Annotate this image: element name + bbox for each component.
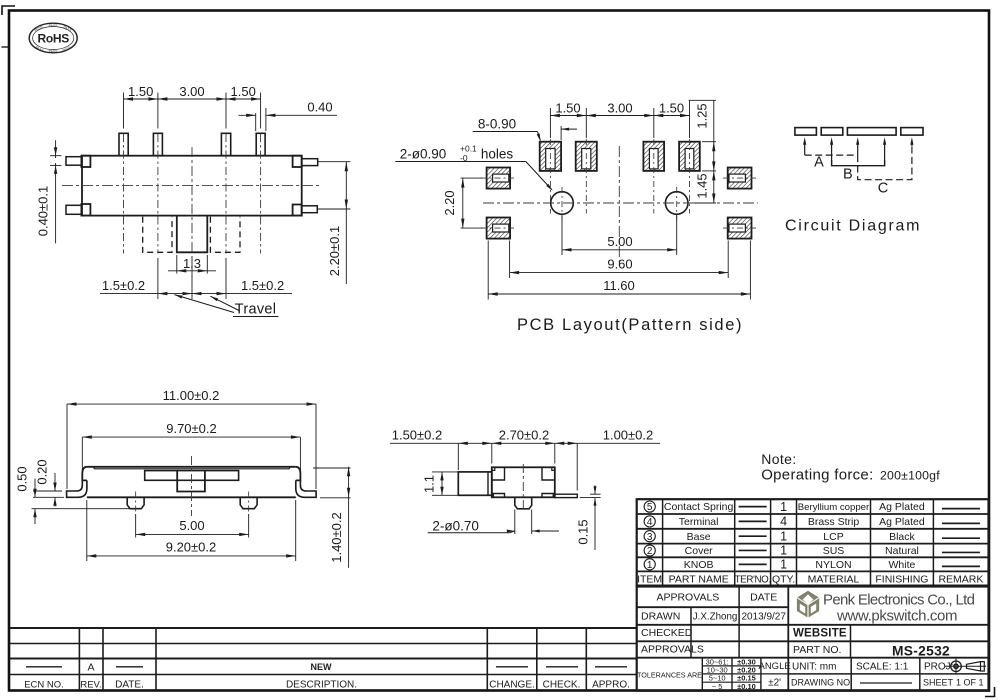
RoHS logo xyxy=(29,23,77,53)
dimension 1.40±0.2 (height) xyxy=(313,467,351,568)
end view knob (protruding left) xyxy=(458,472,492,495)
svg-text:WEBSITE: WEBSITE xyxy=(793,628,847,640)
svg-text:1: 1 xyxy=(647,560,653,571)
front view knob travel positions (dashed) xyxy=(143,217,172,253)
svg-text:PASS: PASS xyxy=(49,50,59,54)
PCB layout: side tab pads right (hatched) xyxy=(728,168,752,189)
svg-text:11.60: 11.60 xyxy=(603,278,635,293)
parts list header xyxy=(637,573,983,585)
svg-text:Ag Plated: Ag Plated xyxy=(879,516,925,528)
svg-text:NYLON: NYLON xyxy=(815,559,851,571)
svg-text:2013/9/27: 2013/9/27 xyxy=(741,612,786,623)
dimension 1.50 / 3.00 / 1.50 (pin pitch, front view) xyxy=(124,84,261,128)
dimension 1.00±0.2 (terminal length) xyxy=(555,428,660,491)
svg-text:MATERIAL: MATERIAL xyxy=(808,573,860,585)
svg-text:2: 2 xyxy=(647,546,653,557)
svg-text:4: 4 xyxy=(647,517,653,528)
svg-text:PART NO.: PART NO. xyxy=(793,644,841,656)
dimension 1.50±0.2 (knob protrusion) xyxy=(390,428,492,470)
svg-text:1: 1 xyxy=(780,558,787,572)
front view pin 1 xyxy=(119,133,128,155)
front view left mounting tabs xyxy=(66,157,81,166)
svg-text:B: B xyxy=(843,167,853,183)
tolerances block xyxy=(637,657,791,691)
svg-text:1: 1 xyxy=(780,500,787,514)
svg-text:DESCRIPTION.: DESCRIPTION. xyxy=(286,680,357,691)
svg-text:ANGLE: ANGLE xyxy=(758,661,790,672)
end view locating peg xyxy=(515,497,532,509)
svg-text:5: 5 xyxy=(647,502,653,513)
drawn row xyxy=(641,611,786,623)
side view centerlines xyxy=(191,456,193,516)
dimension 0.20 (terminal thickness) xyxy=(35,459,57,506)
svg-text:CHANGE.: CHANGE. xyxy=(489,680,535,691)
front view pin 3 xyxy=(221,133,230,155)
dimension 1.3 (knob width) xyxy=(168,255,216,274)
svg-text:~ 5: ~ 5 xyxy=(712,682,723,691)
company logo cube xyxy=(797,591,819,618)
svg-text:UNIT: mm: UNIT: mm xyxy=(792,662,836,673)
svg-text:REMARK: REMARK xyxy=(938,573,983,585)
svg-text:REV.: REV. xyxy=(80,680,101,691)
side view right locating peg xyxy=(240,497,257,508)
front view right mounting tabs xyxy=(293,156,302,167)
PCB layout centerlines xyxy=(481,139,759,263)
svg-text:APPROVALS: APPROVALS xyxy=(656,592,719,604)
front view switch body xyxy=(82,156,302,216)
svg-text:9.20±0.2: 9.20±0.2 xyxy=(166,540,217,555)
side view body base xyxy=(87,496,296,498)
svg-text:1.25: 1.25 xyxy=(695,103,710,128)
svg-text:0.50: 0.50 xyxy=(15,466,30,491)
svg-text:1.50: 1.50 xyxy=(555,100,580,115)
svg-text:Base: Base xyxy=(687,531,711,543)
circuit diagram common terminal xyxy=(847,128,896,136)
dimension 1.1 (knob height) xyxy=(422,472,462,495)
svg-text:www.pkswitch.com: www.pkswitch.com xyxy=(836,608,958,625)
side view knob xyxy=(177,471,205,492)
end view base steps xyxy=(493,494,553,498)
svg-text:1.45: 1.45 xyxy=(695,173,710,198)
svg-text:1: 1 xyxy=(780,544,787,558)
svg-text:DATE: DATE xyxy=(750,592,777,604)
svg-text:A: A xyxy=(814,155,824,171)
svg-text:C: C xyxy=(878,181,888,197)
dimension 9.20±0.2 xyxy=(87,500,296,561)
dimension 5.00 (peg pitch) xyxy=(136,514,249,538)
svg-text:1: 1 xyxy=(780,529,787,543)
svg-text:Operating force:: Operating force: xyxy=(761,467,873,484)
dimension 0.50 (peg protrusion) xyxy=(15,466,37,524)
svg-text:Penk Electronics Co., Ltd: Penk Electronics Co., Ltd xyxy=(823,592,975,609)
dimension 2.70±0.2 (body width) xyxy=(492,428,555,464)
svg-text:1.50±0.2: 1.50±0.2 xyxy=(392,428,443,443)
svg-text:SHEET: SHEET xyxy=(923,678,954,688)
svg-text:Brass Strip: Brass Strip xyxy=(808,516,860,528)
svg-text:1.40±0.2: 1.40±0.2 xyxy=(329,512,344,563)
contact arrows xyxy=(803,137,913,166)
reference lines for 0.50/0.20 xyxy=(32,491,131,509)
svg-text:CHECK.: CHECK. xyxy=(543,680,581,691)
parts list rows xyxy=(644,500,980,572)
svg-text:SUS: SUS xyxy=(823,545,845,557)
revision row entries xyxy=(26,662,627,674)
svg-text:±2': ±2' xyxy=(768,678,781,689)
svg-text:CHECKED: CHECKED xyxy=(641,627,693,639)
unit / scale / proj row xyxy=(788,658,988,691)
dimension 0.15 (terminal standoff) xyxy=(576,485,601,550)
svg-text:2.20: 2.20 xyxy=(442,190,457,215)
svg-text:TOLERANCES ARE: TOLERANCES ARE xyxy=(637,671,702,680)
svg-text:KNOB: KNOB xyxy=(684,559,714,571)
svg-text:3.00: 3.00 xyxy=(607,100,632,115)
svg-text:1 OF 1: 1 OF 1 xyxy=(956,678,984,688)
svg-text:Ag Plated: Ag Plated xyxy=(879,501,925,513)
Travel label with leaders xyxy=(174,295,278,318)
svg-text:TER'NO.: TER'NO. xyxy=(735,574,771,585)
front view knob xyxy=(177,216,208,253)
svg-text:Beryllium copper: Beryllium copper xyxy=(798,502,870,513)
svg-text:DATE.: DATE. xyxy=(115,680,144,691)
svg-text:0.15: 0.15 xyxy=(576,519,591,544)
net C (dashed) xyxy=(858,143,912,180)
svg-text:Contact Spring: Contact Spring xyxy=(664,501,734,513)
net A (dashed) xyxy=(805,154,858,156)
front view pin centerlines xyxy=(123,134,125,254)
dimension 9.60 xyxy=(510,241,729,279)
front view pin 4 xyxy=(256,133,265,155)
revision header labels xyxy=(24,680,630,691)
svg-text:3.00: 3.00 xyxy=(179,84,204,99)
svg-text:±0.10: ±0.10 xyxy=(737,682,756,691)
dimension 2.20 (side pad pitch) xyxy=(442,178,483,228)
front view pin 2 xyxy=(153,133,162,155)
svg-text:1.50: 1.50 xyxy=(231,84,256,99)
svg-text:SCALE: 1:1: SCALE: 1:1 xyxy=(856,662,909,673)
svg-text:1.50: 1.50 xyxy=(128,84,153,99)
svg-text:2.20±0.1: 2.20±0.1 xyxy=(327,226,342,277)
svg-text:FINISHING: FINISHING xyxy=(875,573,928,585)
svg-text:PROJ:: PROJ: xyxy=(924,662,953,673)
side view slider frame xyxy=(145,471,239,481)
svg-text:+0.1: +0.1 xyxy=(460,143,477,153)
svg-text:Travel: Travel xyxy=(235,302,277,318)
dimension 5.00 (hole pitch) xyxy=(562,216,677,256)
svg-text:0.20: 0.20 xyxy=(35,459,50,484)
dimension 2-ø0.70 (peg diameter) xyxy=(428,510,559,535)
svg-text:A: A xyxy=(87,662,94,674)
svg-text:Note:: Note: xyxy=(761,451,796,467)
front view horizontal centerline xyxy=(62,185,322,187)
svg-text:0.40: 0.40 xyxy=(307,100,332,115)
svg-text:2-ø0.70: 2-ø0.70 xyxy=(432,519,479,534)
svg-text:3: 3 xyxy=(647,532,653,543)
net B (solid) xyxy=(832,160,885,166)
dimension 11.00±0.2 xyxy=(67,388,316,489)
circuit diagram terminal 1 xyxy=(795,128,817,136)
svg-text:PASS: PASS xyxy=(49,24,59,28)
dimension 1.5±0.2 travel (left and right) xyxy=(100,256,292,299)
svg-text:Circuit Diagram: Circuit Diagram xyxy=(785,218,920,235)
side view right terminal (gull-wing) xyxy=(296,480,316,497)
svg-text:200±100gf: 200±100gf xyxy=(880,469,940,483)
side view cover outline xyxy=(82,467,300,481)
drawing no / sheet row xyxy=(791,678,984,688)
callout 2-ø0.90 +0.1/-0 holes xyxy=(395,143,553,191)
svg-text:9.60: 9.60 xyxy=(607,257,632,272)
dimension 0.40 (pin width, front view) xyxy=(239,100,338,132)
circuit diagram terminal 2 xyxy=(821,128,843,136)
projection symbol xyxy=(945,659,987,675)
side view left terminal (gull-wing) xyxy=(67,480,87,497)
dimension 1.50 / 3.00 / 1.50 (pad pitch, PCB) xyxy=(550,100,689,138)
circuit diagram terminal 4 xyxy=(901,128,923,136)
svg-text:5.00: 5.00 xyxy=(607,234,632,249)
PCB layout: top terminal pads (hatched) xyxy=(540,142,561,171)
side view left locating peg xyxy=(127,497,144,508)
svg-text:PART NAME: PART NAME xyxy=(669,573,729,585)
dimension 1.25 (pad height) and 1.45 xyxy=(689,100,716,203)
end view body xyxy=(492,467,555,497)
title block frame xyxy=(637,587,989,691)
PCB layout: side tab pads left (hatched) xyxy=(487,168,511,189)
parts list table xyxy=(637,499,989,585)
svg-text:1.1: 1.1 xyxy=(422,475,437,493)
svg-text:8-0.90: 8-0.90 xyxy=(478,117,516,132)
end view centerline xyxy=(522,464,524,512)
svg-text:LCP: LCP xyxy=(823,531,843,543)
PCB layout: mounting hole right xyxy=(665,192,688,215)
svg-text:1.50: 1.50 xyxy=(659,100,684,115)
svg-text:ITEM: ITEM xyxy=(637,573,662,585)
svg-text:2.70±0.2: 2.70±0.2 xyxy=(499,428,550,443)
svg-text:2-ø0.90: 2-ø0.90 xyxy=(400,146,447,161)
svg-text:RoHS: RoHS xyxy=(37,32,69,46)
svg-text:DRAWN: DRAWN xyxy=(641,611,680,623)
svg-text:5.00: 5.00 xyxy=(179,518,204,533)
svg-text:NEW: NEW xyxy=(311,662,333,672)
svg-text:0.40±0.1: 0.40±0.1 xyxy=(36,186,51,237)
website row xyxy=(793,625,851,658)
svg-text:1.5±0.2: 1.5±0.2 xyxy=(241,278,284,293)
end view cover notches xyxy=(492,467,555,480)
svg-text:1.00±0.2: 1.00±0.2 xyxy=(603,428,654,443)
svg-text:J.X.Zhong: J.X.Zhong xyxy=(693,612,738,623)
svg-text:4: 4 xyxy=(780,515,787,529)
svg-text:holes: holes xyxy=(481,146,514,161)
dimension 8-0.90 (pad width callout) xyxy=(473,117,577,142)
svg-text:QTY.: QTY. xyxy=(772,573,795,585)
front view vertical centerline xyxy=(191,147,193,253)
svg-text:9.70±0.2: 9.70±0.2 xyxy=(166,421,217,436)
svg-text:White: White xyxy=(889,559,916,571)
svg-text:APPRO.: APPRO. xyxy=(592,680,630,691)
svg-text:Terminal: Terminal xyxy=(679,516,719,528)
PCB layout: mounting hole left xyxy=(551,192,574,215)
svg-text:Black: Black xyxy=(889,531,915,543)
note text xyxy=(761,451,940,484)
end view terminal strip xyxy=(555,494,578,497)
svg-text:1.5±0.2: 1.5±0.2 xyxy=(102,278,145,293)
svg-text:Natural: Natural xyxy=(885,545,919,557)
svg-text:DRAWING NO.: DRAWING NO. xyxy=(791,678,853,688)
dimension 2.20±0.1 (body height, front view) xyxy=(317,162,350,284)
svg-text:MS-2532: MS-2532 xyxy=(892,644,950,659)
revision table xyxy=(9,628,637,691)
svg-text:ECN NO.: ECN NO. xyxy=(24,680,64,691)
dimension 11.60 xyxy=(488,241,750,300)
svg-text:Cover: Cover xyxy=(685,545,714,557)
svg-text:11.00±0.2: 11.00±0.2 xyxy=(163,388,220,403)
dimension 0.40±0.1 (tab offset, front view) xyxy=(36,140,62,243)
svg-text:APPROVALS: APPROVALS xyxy=(641,644,704,656)
dimension 9.70±0.2 xyxy=(82,421,300,470)
